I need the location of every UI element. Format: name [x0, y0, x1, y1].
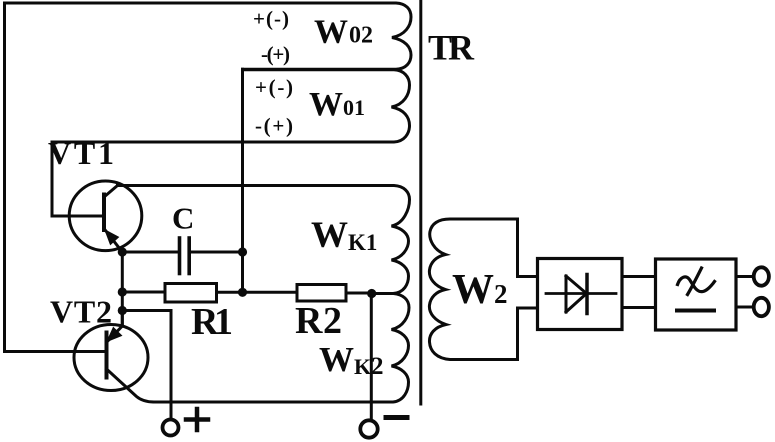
wire: minus terminal rail [370, 294, 373, 421]
svg-text:R1: R1 [191, 301, 233, 343]
svg-text:W02: W02 [314, 14, 373, 51]
label minus [386, 415, 407, 420]
winding W02 [5, 3, 412, 69]
junction dot: WK center tap [367, 289, 376, 298]
filter block [656, 259, 737, 330]
svg-text:R2: R2 [295, 300, 342, 342]
svg-text:W2: W2 [452, 267, 508, 313]
wire: filter to output terminal (top) [736, 275, 754, 278]
winding W2 [429, 219, 537, 360]
junction dot: R1/R2 tap [238, 288, 247, 297]
junction dot: VT1 emitter / C [118, 247, 127, 256]
output terminal bottom [754, 298, 769, 316]
wire: rectifier to filter (top) [622, 275, 656, 278]
wire: emitter rail VT1 to VT2 [121, 252, 124, 326]
wire: windings common tap column [241, 69, 244, 292]
junction dot: R1 left [118, 287, 127, 296]
label + [186, 409, 208, 430]
transistor VT2 [74, 311, 154, 402]
svg-text:+(-): +(-) [253, 7, 289, 31]
svg-text:+(-): +(-) [255, 75, 293, 99]
terminal minus circle [360, 420, 377, 437]
wire: rectifier to filter (bottom) [622, 306, 656, 309]
AC/DC symbol in filter [677, 268, 715, 311]
junction dot: plus rail [118, 306, 127, 315]
svg-text:-(+): -(+) [255, 114, 293, 138]
diode VD [546, 275, 616, 314]
resistor R1 [122, 284, 242, 303]
wire: plus terminal rail [122, 311, 171, 420]
svg-text:TR: TR [428, 28, 475, 68]
winding W01 [52, 70, 410, 142]
resistor R2 [243, 285, 372, 302]
svg-text:C: C [172, 201, 194, 236]
capacitor C [122, 238, 242, 274]
svg-text:W01: W01 [309, 86, 365, 123]
wire: filter to output terminal (bottom) [736, 306, 754, 309]
terminal plus circle [163, 420, 179, 436]
wire: W02 top terminal to VT2 base (left frame) [5, 3, 105, 352]
svg-text:VT2: VT2 [50, 294, 112, 330]
svg-text:WK: WK [319, 340, 371, 379]
svg-text:WK1: WK1 [311, 215, 377, 256]
svg-text:VT1: VT1 [48, 135, 114, 171]
transistor VT1 [69, 181, 142, 252]
wire: W01 to VT1 base [52, 142, 104, 216]
output terminal top [754, 267, 769, 285]
junction dot: C right / tap column [238, 247, 247, 256]
transformer core TR [419, 0, 422, 404]
rectifier block [538, 259, 623, 330]
svg-text:-(+): -(+) [261, 42, 290, 66]
svg-text:2: 2 [371, 353, 384, 380]
winding WK2 [154, 294, 409, 403]
winding WK1 [118, 186, 410, 294]
